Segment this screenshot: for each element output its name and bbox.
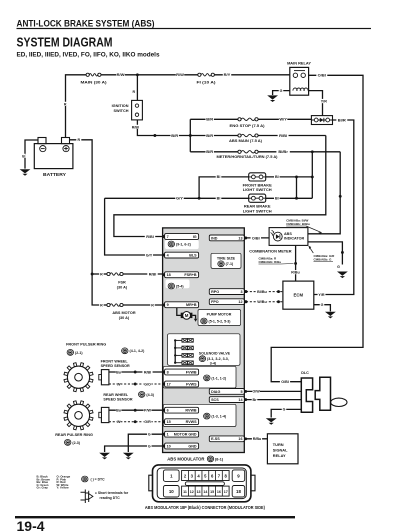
svg-text:FI (10 A): FI (10 A) — [197, 80, 217, 85]
svg-text:Bl/Br: Bl/Br — [278, 149, 288, 154]
svg-text:B/R: B/R — [206, 133, 213, 138]
svg-text:B/R: B/R — [206, 117, 213, 122]
svg-text:11: 11 — [183, 490, 187, 494]
svg-text:G: G — [148, 444, 151, 448]
svg-text:8: 8 — [167, 370, 169, 374]
svg-text:Gr: Gray: Gr: Gray — [37, 486, 49, 490]
svg-text:1: 1 — [167, 433, 169, 437]
svg-text:ED, IIED, IIIED, IVED, FO, IIF: ED, IIED, IIIED, IVED, FO, IIFO, KO, IIK… — [17, 51, 160, 58]
svg-text:W: W — [117, 382, 121, 386]
svg-text:13: 13 — [197, 490, 201, 494]
svg-text:R: R — [132, 90, 135, 94]
svg-text:MAIN RELAY: MAIN RELAY — [287, 61, 311, 66]
svg-text:Bl/R: Bl/R — [338, 117, 346, 122]
svg-text:16: 16 — [238, 437, 242, 441]
svg-text:RPO: RPO — [211, 290, 219, 294]
svg-text:GND: GND — [188, 444, 197, 448]
svg-text:O/Bl: O/Bl — [281, 380, 289, 384]
svg-text:R: R — [77, 138, 80, 142]
svg-text:R: R — [100, 303, 103, 307]
svg-text:DIAG: DIAG — [211, 390, 220, 394]
svg-text:ANTI-LOCK BRAKE SYSTEM (ABS): ANTI-LOCK BRAKE SYSTEM (ABS) — [17, 19, 155, 29]
svg-text:12: 12 — [190, 490, 194, 494]
svg-text:R/Bl: R/Bl — [149, 272, 157, 276]
svg-text:ABS MOTOR: ABS MOTOR — [112, 311, 135, 315]
svg-text:G: G — [283, 408, 286, 412]
svg-text:ABS MAIN (7.5 A): ABS MAIN (7.5 A) — [229, 138, 263, 143]
svg-text:O/W: O/W — [252, 390, 260, 394]
svg-text:ECM: ECM — [294, 293, 304, 298]
svg-text:FVWS: FVWS — [186, 382, 197, 386]
svg-text:10: 10 — [167, 444, 171, 448]
svg-text:Y/R: Y/R — [318, 293, 324, 297]
svg-text:MR+B: MR+B — [186, 303, 197, 307]
svg-text:TIRE SIZE: TIRE SIZE — [217, 256, 236, 260]
svg-text:SPEED SENSOR: SPEED SENSOR — [101, 364, 130, 368]
svg-text:R: R — [100, 272, 103, 276]
svg-text:G: G — [280, 89, 283, 93]
svg-text:INDICATOR: INDICATOR — [284, 237, 304, 241]
svg-text:Bl: Bl — [217, 197, 221, 201]
svg-text:15: 15 — [210, 490, 214, 494]
svg-text:ABS MODULATOR 18P (Black) CONN: ABS MODULATOR 18P (Black) CONNECTOR (MOD… — [145, 505, 266, 510]
svg-text:(7-1): (7-1) — [226, 262, 234, 266]
svg-text:(1-1, 1-2): (1-1, 1-2) — [211, 376, 227, 380]
svg-text:M: M — [185, 313, 189, 318]
svg-text:17: 17 — [224, 490, 228, 494]
svg-text:10: 10 — [169, 489, 174, 494]
svg-text:COMBINATION METER: COMBINATION METER — [249, 248, 291, 253]
svg-text:BATTERY: BATTERY — [43, 172, 66, 177]
svg-text:IGNITION: IGNITION — [112, 104, 129, 108]
svg-text:FPO: FPO — [211, 300, 219, 304]
svg-text:ABS: ABS — [284, 232, 292, 236]
svg-text:Bl: Bl — [275, 197, 279, 201]
svg-text:9: 9 — [167, 303, 169, 307]
svg-text:FSR+B: FSR+B — [184, 273, 197, 277]
svg-text:= Short terminals for: = Short terminals for — [95, 491, 129, 495]
svg-text:W/Y: W/Y — [279, 117, 287, 122]
svg-text:G/R: G/R — [144, 420, 151, 424]
svg-text:Bu: Bu — [116, 370, 122, 374]
svg-text:7: 7 — [167, 235, 169, 239]
svg-text:Br: Br — [252, 398, 257, 402]
svg-text:DLC: DLC — [301, 371, 309, 375]
svg-text:(1-3, 1-4): (1-3, 1-4) — [211, 415, 227, 419]
svg-text:O/Bl: O/Bl — [252, 236, 260, 240]
svg-text:16: 16 — [217, 490, 221, 494]
svg-text:REAR PULSER RING: REAR PULSER RING — [55, 433, 93, 437]
svg-text:(4-1, 4-2): (4-1, 4-2) — [130, 349, 146, 353]
svg-text:MAIN (30 A): MAIN (30 A) — [81, 80, 108, 85]
svg-text:Y/R: Y/R — [321, 100, 327, 104]
svg-text:(2-1): (2-1) — [75, 351, 83, 355]
svg-text:CMB/ABb: G: CMB/ABb: G — [314, 257, 333, 261]
svg-text:E-SS: E-SS — [211, 437, 220, 441]
svg-text:REAR WHEEL: REAR WHEEL — [103, 393, 129, 397]
svg-text:W/Bu: W/Bu — [257, 300, 267, 304]
svg-text:CMB/ABb: Bl/Bu: CMB/ABb: Bl/Bu — [286, 222, 310, 226]
svg-text:FRONT PULSER RING: FRONT PULSER RING — [66, 342, 106, 346]
svg-text:(30 A): (30 A) — [119, 316, 130, 320]
svg-text:19-4: 19-4 — [17, 518, 45, 532]
svg-text:SYSTEM DIAGRAM: SYSTEM DIAGRAM — [17, 35, 113, 49]
svg-text:Y: Yellow: Y: Yellow — [57, 486, 70, 490]
svg-text:( ) = DTC: ( ) = DTC — [91, 477, 106, 481]
svg-text:(5-4): (5-4) — [176, 284, 184, 288]
svg-text:R/W: R/W — [117, 72, 125, 77]
svg-text:(9-1, 6-2): (9-1, 6-2) — [176, 242, 192, 246]
svg-text:BLS: BLS — [189, 253, 197, 257]
svg-text:reading DTC: reading DTC — [100, 496, 121, 500]
svg-text:R/Bl: R/Bl — [146, 235, 154, 239]
svg-text:P/W: P/W — [144, 409, 151, 413]
svg-text:18: 18 — [167, 273, 171, 277]
svg-text:R/Bl: R/Bl — [132, 125, 139, 129]
svg-text:14: 14 — [203, 490, 207, 494]
svg-text:B/R: B/R — [171, 133, 178, 138]
svg-text:FSR: FSR — [118, 280, 126, 284]
svg-text:FVWB: FVWB — [186, 370, 197, 374]
svg-text:B: B — [22, 154, 25, 158]
svg-text:17: 17 — [167, 382, 171, 386]
svg-text:(4-3): (4-3) — [146, 393, 154, 397]
svg-text:R: R — [64, 102, 67, 106]
svg-text:Bl/Bu: Bl/Bu — [257, 290, 267, 294]
svg-text:R/Bu: R/Bu — [253, 437, 262, 441]
svg-text:IND: IND — [211, 236, 218, 240]
svg-text:R/Bl: R/Bl — [279, 133, 287, 138]
svg-text:B/R: B/R — [206, 149, 213, 154]
svg-text:(8-1): (8-1) — [215, 456, 224, 461]
svg-text:R/Bu: R/Bu — [291, 271, 299, 275]
svg-text:O/Bl: O/Bl — [318, 73, 326, 78]
svg-text:G: G — [148, 432, 151, 436]
svg-text:3: 3 — [240, 290, 242, 294]
svg-text:TURN: TURN — [273, 442, 284, 447]
svg-text:(3-1, 3-2, 3-3,: (3-1, 3-2, 3-3, — [207, 357, 229, 361]
svg-text:R/Bl: R/Bl — [144, 370, 151, 374]
svg-text:RELAY: RELAY — [273, 453, 286, 458]
svg-text:IG: IG — [193, 235, 197, 239]
svg-text:15: 15 — [167, 420, 171, 424]
svg-text:SCS: SCS — [211, 398, 219, 402]
svg-text:SWITCH: SWITCH — [114, 109, 129, 113]
svg-text:G/Y: G/Y — [146, 253, 153, 257]
svg-text:6: 6 — [167, 409, 169, 413]
svg-text:ABS MODULATOR: ABS MODULATOR — [167, 456, 205, 461]
svg-text:LIGHT SWITCH: LIGHT SWITCH — [243, 209, 272, 214]
svg-text:Bl: Bl — [217, 175, 221, 179]
svg-text:(2-3): (2-3) — [72, 441, 80, 445]
svg-text:Bl: Bl — [275, 175, 279, 179]
svg-text:SOLENOID VALVE: SOLENOID VALVE — [199, 351, 231, 355]
svg-text:LIGHT SWITCH: LIGHT SWITCH — [243, 187, 272, 192]
svg-text:G/O: G/O — [144, 382, 151, 386]
svg-text:RVWB: RVWB — [185, 409, 197, 413]
svg-text:SPEED SENSOR: SPEED SENSOR — [103, 398, 132, 402]
svg-text:ENG STOP (7.5 A): ENG STOP (7.5 A) — [230, 123, 266, 128]
svg-text:PUMP MOTOR: PUMP MOTOR — [207, 312, 232, 316]
svg-text:(30 A): (30 A) — [117, 285, 128, 289]
svg-text:CMB/ABb: R/Bu: CMB/ABb: R/Bu — [259, 260, 282, 264]
svg-text:(5-1, 5-2, 5-3): (5-1, 5-2, 5-3) — [209, 319, 232, 323]
svg-text:R/W: R/W — [176, 72, 184, 77]
svg-text:SIGNAL: SIGNAL — [273, 448, 288, 453]
svg-text:G: G — [321, 303, 324, 307]
svg-text:R: R — [151, 303, 154, 307]
svg-text:R/Y: R/Y — [224, 72, 231, 77]
svg-text:13: 13 — [238, 236, 242, 240]
svg-text:FRONT WHEEL: FRONT WHEEL — [101, 359, 129, 363]
svg-text:METER/HORN/TAIL/TURN (7.5 A): METER/HORN/TAIL/TURN (7.5 A) — [217, 154, 279, 159]
svg-text:MOTOR GND: MOTOR GND — [174, 433, 197, 437]
svg-text:18: 18 — [236, 489, 241, 494]
svg-text:G: G — [337, 265, 340, 269]
svg-text:3-4): 3-4) — [210, 362, 217, 366]
svg-text:5: 5 — [240, 390, 242, 394]
svg-text:RVWS: RVWS — [186, 420, 198, 424]
svg-text:Bu: Bu — [116, 409, 122, 413]
svg-text:G/Y: G/Y — [176, 196, 183, 201]
svg-text:W: W — [117, 420, 121, 424]
svg-text:12: 12 — [238, 300, 242, 304]
